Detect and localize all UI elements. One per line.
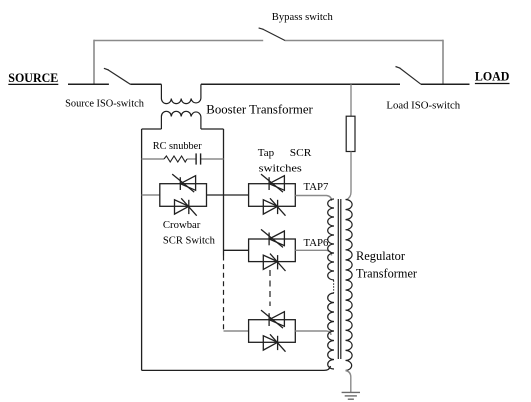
resistor (RC snubber) [164, 156, 187, 162]
crowbar SCR switch pair [160, 174, 207, 216]
dashed ellipsis between tap SCRs [269, 270, 271, 306]
wire: SCR feed rail (solid part) [223, 129, 225, 256]
wire: resistor to regulator secondary (gray) [347, 152, 352, 200]
wire: crowbar to tap7 SCR [207, 194, 249, 196]
regulator transformer primary winding upper section [328, 199, 334, 280]
svg-text:Source ISO-switch: Source ISO-switch [65, 97, 144, 109]
source ISO-switch blade [104, 68, 130, 84]
svg-text:Tap: Tap [258, 147, 275, 159]
wire: bottom rail to regulator transformer [142, 366, 331, 370]
svg-text:SCR: SCR [290, 147, 312, 159]
wire: secondary left terminal to enclosure left rail [142, 128, 162, 130]
svg-text:switches: switches [259, 162, 302, 174]
dotted gap in primary winding [333, 281, 335, 294]
wire: left rail down [141, 129, 143, 370]
svg-text:Load ISO-switch: Load ISO-switch [386, 100, 460, 112]
wire: feed to bottom tap SCR (gray) [224, 330, 249, 332]
wire: source line [68, 83, 161, 85]
wire: bus from booster to load switch [201, 83, 470, 85]
bypass switch blade [259, 28, 285, 41]
tap SCR pair bottom [249, 310, 296, 352]
wire: crowbar left lead (gray) [142, 194, 160, 196]
wire: TAP6 lead to winding (gray) [295, 250, 331, 255]
svg-text:TAP7: TAP7 [304, 181, 329, 193]
wire: TAP7 lead to winding (gray) [295, 196, 331, 202]
svg-text:SCR Switch: SCR Switch [163, 235, 215, 247]
wire: drop to series resistor (gray) [350, 84, 352, 116]
svg-text:Regulator: Regulator [356, 248, 406, 263]
load ISO-switch blade [396, 67, 422, 85]
resistor (series, vertical) [346, 116, 355, 151]
svg-text:Bypass switch: Bypass switch [272, 11, 333, 23]
booster transformer secondary winding [161, 111, 201, 129]
wire: secondary right terminal to SCR feed rail [201, 128, 224, 130]
svg-text:SOURCE: SOURCE [8, 71, 58, 85]
tap SCR pair TAP6 [249, 229, 296, 271]
svg-text:Transformer: Transformer [356, 265, 418, 280]
wire: bypass top run (gray) [94, 40, 443, 85]
svg-text:RC snubber: RC snubber [153, 140, 202, 152]
ground [342, 392, 360, 399]
wire: feed to TAP6 SCR [224, 249, 249, 251]
regulator transformer primary winding lower section [328, 293, 334, 369]
svg-text:LOAD: LOAD [475, 70, 510, 84]
svg-text:Crowbar: Crowbar [163, 219, 201, 231]
svg-text:TAP6: TAP6 [304, 237, 329, 249]
booster transformer primary winding [161, 84, 201, 103]
transformer core [338, 199, 341, 359]
tap SCR pair TAP7 [249, 174, 296, 216]
wire: secondary bottom to ground (gray) [346, 371, 351, 393]
wire: bottom tap lead to winding (gray) [295, 331, 331, 335]
regulator transformer secondary winding [346, 200, 353, 371]
RC snubber branch wire (gray) [142, 158, 224, 160]
svg-text:Booster Transformer: Booster Transformer [206, 102, 313, 117]
wire: SCR feed rail (dashed part) [223, 256, 225, 332]
capacitor (RC snubber) [196, 153, 201, 164]
